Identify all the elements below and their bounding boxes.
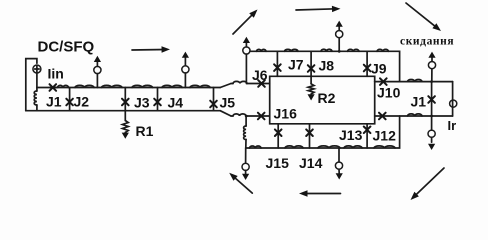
junction J4 xyxy=(157,88,159,111)
svg-text:J1: J1 xyxy=(411,94,427,110)
junction J1 output xyxy=(431,82,433,116)
bias source 2 xyxy=(184,73,186,88)
svg-text:J6: J6 xyxy=(252,67,268,83)
svg-text:J14: J14 xyxy=(299,155,323,171)
junction J12 xyxy=(379,113,386,120)
junction J2 xyxy=(69,88,71,111)
svg-text:J1: J1 xyxy=(46,94,62,110)
junction J10 xyxy=(380,78,387,85)
bias return 2 xyxy=(338,148,340,162)
junction J5 xyxy=(213,88,215,111)
svg-text:J5: J5 xyxy=(220,95,236,111)
arrow pulse 1 xyxy=(132,49,165,52)
inductor coil left xyxy=(245,116,247,126)
arrow pulse 5 xyxy=(233,176,253,193)
svg-text:J2: J2 xyxy=(74,94,90,110)
junction J15 xyxy=(277,124,279,148)
svg-text:J3: J3 xyxy=(134,95,150,111)
svg-text:R1: R1 xyxy=(136,123,154,139)
junction J16 xyxy=(258,113,265,120)
svg-text:Ir: Ir xyxy=(448,118,457,133)
resistor R1 xyxy=(124,111,126,121)
inductor input coil xyxy=(36,88,38,92)
junction J6 xyxy=(258,80,265,87)
junction J3 xyxy=(124,88,126,111)
bias return 1 xyxy=(245,148,247,163)
svg-text:J13: J13 xyxy=(339,127,363,143)
bias source 4 xyxy=(338,50,341,53)
svg-text:J15: J15 xyxy=(266,155,290,171)
wire widened bottom xyxy=(231,115,233,117)
svg-text:J12: J12 xyxy=(373,128,397,144)
svg-text:R2: R2 xyxy=(318,90,336,106)
junction J8 xyxy=(310,51,312,76)
output terminal xyxy=(450,100,457,107)
bias source 1 xyxy=(96,74,98,88)
wire lower rail xyxy=(246,116,400,148)
junction J9 xyxy=(366,51,368,76)
wire widened top xyxy=(231,83,233,85)
wire bottom rail xyxy=(26,110,220,112)
svg-text:J4: J4 xyxy=(168,95,184,111)
flip-flop loop xyxy=(270,76,375,124)
svg-text:DC/SFQ: DC/SFQ xyxy=(38,39,95,56)
junction J7 xyxy=(276,51,278,76)
arrow pulse 4 xyxy=(406,3,437,28)
svg-text:J16: J16 xyxy=(274,106,298,122)
junction J13 xyxy=(366,124,368,148)
svg-text:J10: J10 xyxy=(377,85,401,101)
svg-text:J7: J7 xyxy=(288,57,304,73)
arrow pulse 6 xyxy=(304,193,341,195)
arrow pulse 2 xyxy=(233,13,254,34)
arrow pulse 3 xyxy=(296,9,336,10)
bias reset top xyxy=(431,69,433,82)
bias reset bottom xyxy=(431,116,433,130)
wire top rail xyxy=(37,87,57,89)
arrow pulse 7 xyxy=(414,168,444,197)
svg-text:скидання: скидання xyxy=(400,36,454,48)
svg-text:Iin: Iin xyxy=(48,66,64,82)
inductor L top rail bumps xyxy=(58,85,211,87)
svg-text:J8: J8 xyxy=(319,58,335,74)
wire input loop left xyxy=(26,59,37,111)
wire step-up transition xyxy=(220,84,231,88)
bias source 3 xyxy=(245,54,247,83)
junction J1 xyxy=(50,84,57,91)
wire output right edge xyxy=(452,82,454,116)
svg-text:J9: J9 xyxy=(371,61,387,77)
wire upper rail xyxy=(250,51,400,81)
junction J14 xyxy=(309,124,311,148)
resistor R2 xyxy=(310,76,312,84)
current source Iin xyxy=(33,65,41,73)
wire output bottom rail xyxy=(375,115,453,117)
wire output top rail xyxy=(375,81,453,83)
